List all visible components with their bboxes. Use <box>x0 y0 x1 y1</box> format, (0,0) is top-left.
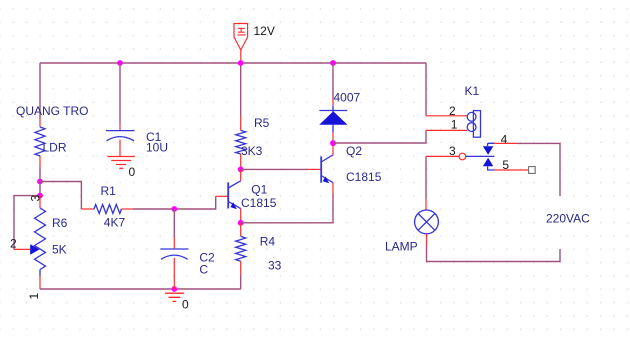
node pot pin3 junction <box>37 193 43 199</box>
wire pin3 from lamp column <box>426 155 459 157</box>
wire diode bottom <box>332 133 334 144</box>
svg-text:R5: R5 <box>254 116 270 130</box>
svg-text:0: 0 <box>182 298 189 312</box>
svg-text:R4: R4 <box>260 235 276 249</box>
svg-text:LDR: LDR <box>43 141 67 155</box>
resistor R5 <box>236 130 246 154</box>
wire C2 bottom <box>173 258 175 289</box>
svg-text:2: 2 <box>449 104 456 118</box>
node Q1 emitter <box>238 220 244 226</box>
node 12V rail junction <box>238 60 244 66</box>
svg-text:1: 1 <box>451 117 458 131</box>
transistor Q1 <box>228 169 241 222</box>
svg-text:4007: 4007 <box>334 91 361 105</box>
transistor Q2 <box>321 143 333 193</box>
wire Q2 emitter down and left <box>241 194 333 223</box>
wire left column to LDR <box>39 63 41 118</box>
svg-text:0: 0 <box>129 165 136 179</box>
svg-text:C: C <box>199 263 208 277</box>
svg-text:2: 2 <box>10 237 17 251</box>
wire C1 bottom <box>119 140 121 157</box>
svg-text:LAMP: LAMP <box>385 240 418 254</box>
relay K1 coil <box>467 111 480 138</box>
relay contact pin 4 (NC) <box>483 143 494 155</box>
wire pin5 stub <box>494 169 528 171</box>
wire rail to relay pin2 <box>425 63 427 116</box>
wire pin3 down to lamp <box>425 156 427 199</box>
wire R1 to Q1 base <box>133 196 216 209</box>
wire top rail <box>40 62 426 64</box>
ground bottom rail <box>165 293 184 301</box>
resistor LDR (QUANG TRO) <box>35 127 45 156</box>
wire pin4 to 220VAC <box>494 142 517 144</box>
power symbol 12V <box>234 24 248 64</box>
diode D 4007 <box>319 106 347 133</box>
wire lamp bottom loop <box>426 234 428 246</box>
node bottom ground junction <box>171 286 177 292</box>
node LDR/R1 junction <box>37 179 43 185</box>
svg-text:1: 1 <box>27 293 41 300</box>
svg-text:4: 4 <box>501 132 508 146</box>
svg-text:C1815: C1815 <box>346 170 382 184</box>
no-connect square pin5 <box>529 167 536 174</box>
ground under C1 <box>107 157 135 169</box>
svg-text:R6: R6 <box>52 216 68 230</box>
svg-text:4K7: 4K7 <box>104 216 126 230</box>
svg-text:10U: 10U <box>146 141 168 155</box>
svg-text:5K: 5K <box>52 243 67 257</box>
relay contact arm <box>466 155 495 157</box>
svg-text:33: 33 <box>268 258 282 272</box>
svg-text:Q2: Q2 <box>346 144 362 158</box>
node R1/C2 junction <box>171 206 177 212</box>
svg-text:3: 3 <box>449 144 456 158</box>
wire LDR bottom <box>39 156 41 167</box>
capacitor C1 <box>106 131 135 141</box>
node C1 top <box>117 60 123 66</box>
wire R5 top <box>240 63 242 116</box>
svg-text:Q1: Q1 <box>251 182 267 196</box>
node Q1 collector <box>238 167 244 173</box>
wire node to R1 <box>40 182 81 210</box>
wire pot bottom <box>39 276 41 289</box>
svg-text:K1: K1 <box>465 84 480 98</box>
relay common contact pin 3 <box>459 153 466 160</box>
relay contact pin 5 (NO) <box>483 158 494 170</box>
svg-text:R1: R1 <box>101 184 117 198</box>
wire pot wiper loop <box>14 196 40 250</box>
wire bottom rail <box>40 288 241 290</box>
wire R5 bottom <box>240 154 242 169</box>
wire Q1 collector to Q2 base <box>241 168 308 170</box>
resistor R1 <box>81 208 94 210</box>
svg-text:C1815: C1815 <box>241 196 277 210</box>
capacitor C2 <box>160 249 188 259</box>
node diode top rail <box>330 60 336 66</box>
wire C2 top <box>173 209 175 237</box>
node Q2 collector / relay <box>330 140 336 146</box>
lamp <box>415 210 439 234</box>
potentiometer R6 <box>30 196 45 276</box>
svg-text:QUANG TRO: QUANG TRO <box>16 104 88 118</box>
svg-text:3K3: 3K3 <box>241 144 263 158</box>
svg-text:220VAC: 220VAC <box>546 211 590 225</box>
wire diode top <box>332 63 334 99</box>
resistor R4 <box>240 223 242 237</box>
wire relay pin1 to Q2 collector <box>426 129 467 131</box>
svg-text:12V: 12V <box>254 24 275 38</box>
wire node to pot <box>39 182 41 196</box>
wire C1 top <box>119 63 121 125</box>
